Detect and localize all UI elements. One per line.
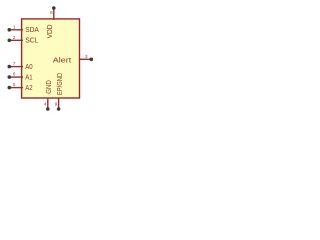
pin 6 wire bbox=[9, 76, 23, 78]
pin 3 wire (Alert right) bbox=[79, 58, 92, 60]
svg-text:2: 2 bbox=[13, 35, 16, 40]
svg-text:4: 4 bbox=[44, 101, 47, 106]
pin 9 wire (EP/GND bottom) bbox=[58, 98, 60, 110]
svg-text:A0: A0 bbox=[25, 62, 32, 71]
pin 4 wire (GND bottom) bbox=[47, 98, 49, 110]
pin 1 wire bbox=[9, 29, 23, 31]
svg-text:5: 5 bbox=[13, 82, 16, 87]
pin 6 dot bbox=[8, 75, 12, 79]
pin 1 dot bbox=[8, 28, 12, 32]
pin 5 dot bbox=[8, 86, 12, 90]
svg-text:7: 7 bbox=[13, 61, 16, 66]
svg-text:9: 9 bbox=[55, 101, 58, 106]
svg-text:SCL: SCL bbox=[25, 36, 38, 45]
pin 8 dot bbox=[52, 6, 56, 10]
svg-text:1: 1 bbox=[13, 24, 16, 29]
pin 9 dot bbox=[57, 107, 61, 111]
pin 7 dot bbox=[8, 65, 12, 69]
pin 7 wire bbox=[9, 66, 23, 68]
pin 2 dot bbox=[8, 39, 12, 43]
svg-text:Alert: Alert bbox=[53, 55, 71, 64]
svg-text:3: 3 bbox=[85, 54, 88, 59]
svg-text:A1: A1 bbox=[25, 72, 32, 81]
pin 2 wire bbox=[9, 39, 23, 41]
pin 3 dot bbox=[90, 58, 94, 62]
pin 5 wire bbox=[9, 87, 23, 89]
svg-text:GND: GND bbox=[44, 80, 53, 94]
svg-text:SDA: SDA bbox=[25, 25, 39, 34]
pin 4 dot bbox=[46, 107, 50, 111]
svg-text:8: 8 bbox=[50, 10, 53, 15]
pin 8 wire (VDD top) bbox=[53, 8, 55, 20]
svg-text:6: 6 bbox=[13, 72, 16, 77]
svg-text:VDD: VDD bbox=[45, 24, 54, 38]
svg-text:A2: A2 bbox=[25, 83, 32, 92]
IC body bbox=[22, 19, 80, 98]
svg-text:EP/GND: EP/GND bbox=[55, 73, 64, 95]
